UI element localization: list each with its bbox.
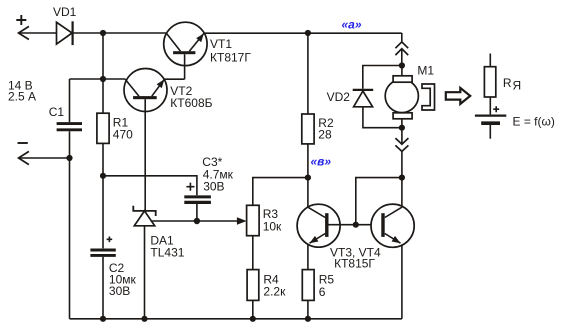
arrow into R3 wiper bbox=[237, 217, 247, 224]
motor M1 bbox=[385, 76, 418, 119]
label VT1 KT817G bbox=[210, 37, 251, 64]
label 14V 2.5A bbox=[8, 79, 36, 104]
wire: VT1 emitter to motor column bbox=[204, 32, 402, 34]
wire: + terminal to VD1 anode bbox=[19, 32, 57, 34]
potentiometer R3 bbox=[247, 205, 260, 235]
wire: VT3 emitter to R5 bbox=[307, 244, 309, 269]
node: junction C2 / bottom rail bbox=[100, 316, 106, 322]
wire: R2 top lead bbox=[307, 33, 309, 114]
wire: VT3 base to VT4 base bbox=[329, 224, 382, 226]
wire: junction right to C3 top bbox=[103, 176, 197, 195]
resistor R1 bbox=[97, 113, 109, 143]
transistor VT2 bbox=[124, 69, 167, 112]
resistor R2 bbox=[302, 114, 314, 144]
wire: DA1 anode to bottom rail bbox=[144, 226, 146, 319]
svg-text:КТ608Б: КТ608Б bbox=[170, 96, 212, 110]
svg-text:R: R bbox=[503, 76, 512, 90]
wire: R3 bottom to R4 top bbox=[252, 236, 254, 270]
svg-text:28: 28 bbox=[318, 128, 332, 142]
wire: C1 top column bbox=[69, 79, 71, 122]
label + of C3 bbox=[186, 183, 194, 191]
node: junction VD1/R1 column top bbox=[100, 30, 106, 36]
resistor R4 bbox=[247, 270, 259, 301]
wire: C2 top lead bbox=[102, 176, 104, 249]
node: junction R1 / C2 / C3 wire bbox=[100, 173, 106, 179]
svg-text:30В: 30В bbox=[109, 284, 130, 298]
wire: VD2 anode to motor minus node bbox=[363, 107, 402, 128]
node: junction base wire bbox=[353, 222, 359, 228]
label + of C2 bbox=[107, 237, 113, 243]
svg-text:30В: 30В bbox=[203, 179, 224, 193]
connector chevrons down bbox=[395, 138, 408, 151]
wire: R to EMF source bbox=[489, 97, 491, 114]
wire: VT4 emitter to bottom rail corner bbox=[401, 244, 403, 318]
svg-text:«в»: «в» bbox=[311, 154, 332, 168]
terminal minus (input -) bbox=[18, 143, 29, 165]
svg-text:6: 6 bbox=[319, 285, 326, 299]
svg-text:«а»: «а» bbox=[342, 18, 362, 32]
wire: connector to motor node bbox=[401, 49, 403, 66]
label + of EMF bbox=[493, 106, 499, 112]
diode VD2 bbox=[353, 90, 374, 107]
svg-text:E = f(ω): E = f(ω) bbox=[513, 114, 555, 128]
terminal plus (input +) bbox=[16, 15, 29, 40]
label C2 10mk 30V bbox=[109, 261, 137, 298]
wire: node to lower connector bbox=[401, 128, 403, 145]
wire: C3 bottom to reference wire bbox=[196, 204, 198, 221]
wire: motor bottom lead bbox=[401, 119, 403, 128]
svg-text:КТ817Г: КТ817Г bbox=[210, 50, 251, 64]
wire: top rail corner down to connector bbox=[401, 33, 403, 42]
wire: armature model top lead bbox=[489, 54, 491, 67]
label C3* 4.7mk 30V bbox=[202, 155, 233, 193]
node: junction minus / left column bbox=[66, 155, 72, 161]
block arrow (equivalent) bbox=[446, 88, 470, 104]
wire: junction left to R3 top bbox=[253, 178, 308, 206]
svg-text:КТ815Г: КТ815Г bbox=[334, 257, 375, 271]
capacitor C1 bbox=[57, 124, 82, 130]
node: junction top of R2 bbox=[305, 30, 311, 36]
wire: DA1 reference to R3 wiper arrow bbox=[151, 220, 239, 222]
node: junction motor + / VD2 bbox=[399, 62, 405, 68]
node: junction R2 / R3 / VT3 collector bbox=[305, 175, 311, 181]
label R2 28 bbox=[318, 116, 334, 142]
connector chevrons up bbox=[395, 42, 408, 55]
wire: C1 bottom to minus node bbox=[69, 131, 71, 158]
svg-text:TL431: TL431 bbox=[150, 245, 184, 259]
node: junction motor - / VD2 anode bbox=[399, 125, 405, 131]
bottom rail wire bbox=[70, 318, 402, 320]
svg-text:VD2: VD2 bbox=[327, 90, 351, 104]
wire: to VD2 cathode bbox=[363, 66, 402, 89]
wire: EMF bottom lead bbox=[489, 125, 491, 139]
svg-text:470: 470 bbox=[113, 128, 133, 142]
label R4 2.2k bbox=[263, 273, 286, 299]
svg-text:C1: C1 bbox=[49, 105, 65, 119]
wire: horizontal C1 to VT2 collector bbox=[70, 78, 125, 80]
wire: VD1 cathode to VT1 collector bbox=[73, 32, 167, 34]
label DA1 TL431 bbox=[150, 233, 184, 259]
label R3 10k bbox=[263, 207, 282, 233]
label R1 470 bbox=[113, 116, 133, 142]
wire: junction down to VT2 collector node bbox=[102, 33, 104, 79]
wire: VT2 base down to DA1 cathode bbox=[144, 99, 146, 211]
label VT2 KT608B bbox=[170, 84, 212, 110]
svg-text:VT1: VT1 bbox=[210, 37, 232, 51]
wire: down to VT4 collector bbox=[401, 178, 403, 208]
wire: C2 bottom to rail bbox=[102, 257, 104, 319]
capacitor C3 bbox=[184, 197, 211, 203]
svg-text:VD1: VD1 bbox=[53, 5, 77, 19]
svg-text:Я: Я bbox=[513, 79, 522, 93]
wire: lower connector to VT4 branch node bbox=[401, 151, 403, 177]
svg-text:2.5 А: 2.5 А bbox=[8, 90, 36, 104]
wire: base junction up and right to motor column bbox=[356, 178, 402, 225]
transistor VT3 bbox=[297, 204, 340, 247]
wire: R4 bottom to rail bbox=[252, 300, 254, 318]
wire: left column down to bottom rail bbox=[69, 158, 71, 319]
wire: VT3 collector from node bbox=[307, 178, 309, 208]
node: junction VT2 collector / R1 top bbox=[100, 76, 106, 82]
wire: VT2 emitter to VT1 base bbox=[164, 78, 184, 80]
transistor VT1 bbox=[164, 22, 207, 79]
wire: R5 bottom to rail bbox=[307, 300, 309, 318]
resistor R armature bbox=[484, 67, 495, 97]
shaft coupling bracket bbox=[422, 84, 435, 110]
wire: R1 top lead bbox=[102, 79, 104, 113]
label R_Ya bbox=[503, 76, 521, 93]
transistor VT4 bbox=[371, 204, 414, 247]
diode VD1 bbox=[57, 21, 73, 45]
shunt regulator DA1 TL431 bbox=[133, 206, 155, 226]
node: junction R4 / bottom rail bbox=[250, 316, 256, 322]
wire: R1 bottom lead bbox=[102, 143, 104, 175]
node: junction C3 / reference wire bbox=[194, 218, 200, 224]
wire: motor top lead bbox=[401, 66, 403, 77]
node: junction motor column / base branch bbox=[399, 175, 405, 181]
svg-text:10к: 10к bbox=[263, 219, 282, 233]
resistor R5 bbox=[302, 270, 314, 301]
svg-text:M1: M1 bbox=[417, 64, 434, 78]
capacitor C2 bbox=[90, 250, 115, 255]
label R5 6 bbox=[319, 273, 335, 299]
wire: - terminal to left column bbox=[19, 157, 70, 159]
wire: R2 bottom lead bbox=[307, 144, 309, 178]
node: junction DA1 / bottom rail bbox=[141, 316, 147, 322]
label VT3, VT4 KT815G bbox=[330, 245, 381, 270]
node: junction R5 / bottom rail bbox=[305, 316, 311, 322]
svg-text:2.2к: 2.2к bbox=[263, 284, 286, 298]
EMF source battery bbox=[475, 116, 506, 124]
